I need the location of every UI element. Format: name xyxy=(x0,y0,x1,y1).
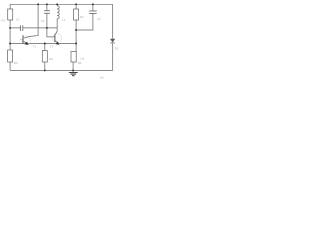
node top rail junction x57 xyxy=(56,3,58,5)
wire base coupling row y28 xyxy=(10,27,57,29)
capacitor C3 plates xyxy=(89,11,97,13)
transistor Q2 emitter arrow xyxy=(56,42,60,45)
transistor Q1 base bar xyxy=(22,35,24,43)
svg-text:R4: R4 xyxy=(78,61,82,65)
wire left vertical R1 top lead xyxy=(9,4,11,9)
capacitor C1 plates xyxy=(21,25,23,31)
node R2 bottom y30 xyxy=(75,29,77,31)
svg-text:T1: T1 xyxy=(33,45,37,49)
transistor Q2 base bar xyxy=(54,34,56,42)
transistor Q1 circle xyxy=(22,36,31,45)
wire L1 bottom lead xyxy=(56,19,58,31)
transistor Q1 emitter arrow xyxy=(25,42,29,45)
capacitor C2 plates xyxy=(44,11,50,13)
svg-text:C3: C3 xyxy=(97,17,101,21)
resistor R3 xyxy=(42,51,47,63)
wire R4 bottom lead xyxy=(72,62,74,70)
diode D1 triangle xyxy=(110,39,115,43)
wire C2 stem xyxy=(46,4,48,28)
svg-text:D1: D1 xyxy=(115,46,119,50)
transistor Q1 emitter xyxy=(24,41,27,43)
svg-text:C2: C2 xyxy=(41,19,45,23)
svg-text:L1: L1 xyxy=(62,18,66,22)
resistor R1 xyxy=(8,9,13,20)
svg-text:R5: R5 xyxy=(14,61,18,65)
node C2 bottom y28 xyxy=(46,27,48,29)
svg-text:Ue: Ue xyxy=(100,75,104,79)
wire left vertical middle xyxy=(9,20,11,50)
node top rail junction x93 xyxy=(92,3,94,5)
wire right vertical upper xyxy=(112,4,114,38)
svg-text:C1: C1 xyxy=(16,18,20,22)
transistor Q1 base stub xyxy=(20,39,23,41)
wire R2 chain vertical xyxy=(75,4,77,51)
node R3 top xyxy=(44,43,46,45)
wire bottom rail xyxy=(10,69,113,71)
transistor Q2 emitter xyxy=(55,41,58,43)
svg-text:R2: R2 xyxy=(80,15,84,19)
resistor R5 xyxy=(8,50,13,62)
svg-text:T2: T2 xyxy=(50,44,54,48)
node top rail junction x38 xyxy=(37,3,39,5)
node left y43.5 xyxy=(9,43,11,45)
node top rail junction x76 xyxy=(75,3,77,5)
node bottom rail ground xyxy=(72,69,74,71)
wire Q2 base elbow xyxy=(47,28,55,37)
transistor Q2 circle xyxy=(52,33,61,42)
wire R3 stem xyxy=(44,44,46,71)
wire top rail xyxy=(10,3,113,5)
node bottom rail R3 xyxy=(44,69,46,71)
wire C3 stem and link to R2 chain xyxy=(76,4,93,30)
resistor R2 xyxy=(74,9,79,20)
wire emitter row y43.5 xyxy=(10,43,76,45)
resistor R4 xyxy=(71,52,76,63)
svg-text:R1: R1 xyxy=(2,18,6,22)
wire right vertical lower xyxy=(112,43,114,70)
inductor L1 xyxy=(57,6,59,19)
ground xyxy=(72,70,74,72)
diode D1 cathode bar xyxy=(110,42,115,44)
svg-text:Ua: Ua xyxy=(81,57,85,61)
wire left vertical bottom lead xyxy=(9,62,11,70)
svg-text:R3: R3 xyxy=(49,57,53,61)
node left y28 xyxy=(9,27,11,29)
wire L1 top lead xyxy=(56,4,58,6)
transistor Q1 collector xyxy=(24,4,38,38)
node emitter row right xyxy=(75,43,77,45)
node top rail junction x47 xyxy=(46,3,48,5)
transistor Q2 collector xyxy=(55,31,57,34)
